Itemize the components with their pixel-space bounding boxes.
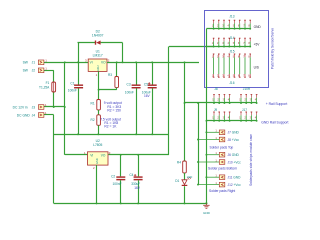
node C2 gnd [120,202,122,204]
svg-text:GND: GND [95,158,99,164]
wire R1-R2 link [98,110,100,115]
wire J3 input [44,106,65,108]
connector J3 DC 12V in [38,105,44,110]
wire D2 left lead [78,42,96,44]
svg-text:R3: R3 [108,73,112,77]
wire U1 output line [107,62,199,64]
resistor R3 [116,62,118,76]
svg-text:J6 GND: J6 GND [228,153,240,157]
svg-text:J12 +Vcc: J12 +Vcc [228,183,242,187]
wire +5V feed into patch box [169,46,214,48]
svg-text:16V: 16V [144,94,151,98]
svg-text:C5: C5 [144,82,148,86]
svg-text:J3: J3 [32,105,36,109]
svg-text:LM317: LM317 [93,53,103,57]
connector pad J11 GND [205,174,219,179]
node GND rail at C3 [135,133,137,135]
svg-text:DC GND: DC GND [17,113,31,117]
wire D1 to ground rail [184,186,186,203]
svg-text:J4: J4 [32,113,36,117]
svg-text:VO: VO [101,61,106,65]
svg-text:GND: GND [203,211,211,215]
op-amp U1 LM317 regulator body [88,59,107,71]
svg-text:16V: 16V [134,186,141,190]
svg-text:Patch field By Sensor/Servo: Patch field By Sensor/Servo [271,28,275,69]
node + rail left [184,102,186,104]
connector J1 (switch) [38,60,44,65]
svg-text:J13: J13 [229,15,234,19]
wire +5V output line [109,154,170,156]
wire U2 GND pin down [96,165,98,203]
node ADJ junction [98,89,100,91]
svg-text:R4: R4 [177,161,181,165]
node VO at C3 [135,61,137,63]
node VO at R3 [116,61,118,63]
svg-text:F1: F1 [46,81,50,85]
node GND rail at R2 [97,133,99,135]
wire D2 right lead [101,42,123,44]
node + rail to pads riser [197,102,199,104]
svg-text:GND: GND [254,25,262,29]
svg-text:J17: J17 [242,108,247,112]
svg-text:VI: VI [90,61,93,65]
connector pad J12+Vcc [197,181,219,186]
svg-text:1: 1 [96,73,98,77]
capacitor C4 330uF 16V polarized [138,155,140,177]
connector J2 (switch) [38,68,44,73]
wire GND row [206,28,250,30]
svg-text:C1: C1 [70,81,74,85]
capacitor C5 100uF 16V polarized [152,62,154,84]
wire C5 ground stub [152,88,154,134]
wire ADJ node horizontal to R3 [99,89,117,91]
svg-text:Solderpads side strips module: Solderpads side strips module case [249,134,253,186]
svg-text:J16: J16 [229,81,234,85]
svg-text:R2: R2 [91,118,95,122]
node C4 gnd [137,202,139,204]
node U/S tap [184,61,186,63]
node VO at C5 [151,61,153,63]
svg-text:100nF: 100nF [68,89,77,93]
svg-text:SW: SW [23,69,29,73]
svg-text:T1,25A: T1,25A [39,85,50,89]
fuse F1 T1,25A [52,82,56,92]
svg-text:+5V: +5V [254,43,261,47]
connector pad J6 GND [205,151,219,156]
capacitor C1 100nF [78,62,80,84]
ground spine from patch box to bottom [206,29,208,204]
svg-text:LED: LED [187,175,192,179]
wire bottom ground rail [54,203,206,205]
svg-text:2: 2 [93,166,95,170]
wire main +12V input line J1 to U1 VI [44,62,88,64]
wire GND rail horizontal [54,134,169,136]
wire + rail support [185,102,257,104]
wire +5V riser to patch field [168,47,170,155]
svg-text:1: 1 [45,67,47,71]
svg-text:J9: J9 [214,108,218,112]
connector pad J7 GND [205,129,219,134]
resistor R4 [183,161,187,173]
node +5V at C4 [137,154,139,156]
svg-text:GND Rail Support: GND Rail Support [261,120,288,124]
node +5V at C2 [120,154,122,156]
wire J2 to fuse [44,70,54,72]
svg-text:J10R: J10R [243,87,251,91]
wire J4 GND lead [44,114,54,116]
svg-text:C2: C2 [111,174,115,178]
patch field blue outline box [205,11,269,88]
diode D2 1N4007 [95,41,101,45]
connector pad J10+Vcc [197,158,219,163]
wire patch column links [214,57,251,74]
svg-text:VI: VI [90,154,93,158]
svg-text:DC 12V in: DC 12V in [13,105,28,109]
capacitor C2 100nF [120,155,122,177]
svg-text:VO: VO [101,154,106,158]
wire R4 to D1 [184,173,186,180]
svg-text:ADJ: ADJ [96,65,100,71]
wire U1 ADJ down [98,71,100,89]
node GND rail at C1 [77,133,79,135]
node VO at D2 column [122,61,124,63]
svg-text:J11 GND: J11 GND [228,176,242,180]
node D1 gnd [184,202,186,204]
wire R2 to GND rail [98,125,100,134]
svg-text:U/S: U/S [254,66,259,70]
connector J16 patch header bottom [212,74,251,77]
ground symbol [205,202,207,204]
node junction at J3 wire [64,106,66,108]
svg-text:C3: C3 [127,82,131,86]
svg-text:100nF: 100nF [125,91,134,95]
svg-text:Solder pads Right: Solder pads Right [209,189,235,193]
svg-text:L7805: L7805 [93,143,102,147]
svg-text:R1: R1 [91,102,95,106]
connector J4 DC GND [38,113,44,118]
wire U/S rail riser down to + rail [184,62,186,161]
svg-text:J8: J8 [214,87,218,91]
node junction J3/fuse [53,106,55,108]
LED D1 [182,177,191,186]
svg-text:100nF: 100nF [113,182,122,186]
wire fuse to J3 line [53,92,55,107]
svg-text:1N4007: 1N4007 [92,33,104,37]
wire +12V down feed to U2 [64,62,66,155]
svg-text:+ Rail Support: + Rail Support [266,102,288,106]
wire GND rail support [206,120,256,122]
capacitor C3 100nF [136,62,138,84]
svg-text:Solder pads Top: Solder pads Top [210,145,234,149]
connector pad J8 +Vcc [197,136,219,141]
node junction D2/C1 column [77,61,79,63]
svg-text:J15: J15 [229,50,234,54]
svg-text:J10 +Vcc: J10 +Vcc [228,160,242,164]
svg-text:Solder pads Bottom: Solder pads Bottom [208,167,237,171]
wire +5V row [206,46,250,48]
svg-text:J1: J1 [32,61,36,65]
svg-text:J8 +Vcc: J8 +Vcc [228,138,240,142]
svg-text:J7 GND: J7 GND [228,131,240,135]
node gnd rail at spine [205,120,207,122]
resistor R1 [98,90,100,100]
resistor R2 [97,115,101,126]
node junction +12V feed [64,61,66,63]
svg-text:J2: J2 [32,69,36,73]
op-amp U2 L7805 regulator body [88,152,109,165]
svg-text:D1: D1 [175,179,179,183]
node U2 gnd on bottom rail [96,202,98,204]
svg-text:R2 = 150: R2 = 150 [107,108,121,112]
svg-text:R2 = 1K: R2 = 1K [104,124,117,128]
wire +Vcc pads riser [198,103,200,185]
svg-text:1: 1 [45,59,47,63]
svg-text:C4: C4 [129,173,133,177]
svg-text:SW: SW [23,61,29,65]
